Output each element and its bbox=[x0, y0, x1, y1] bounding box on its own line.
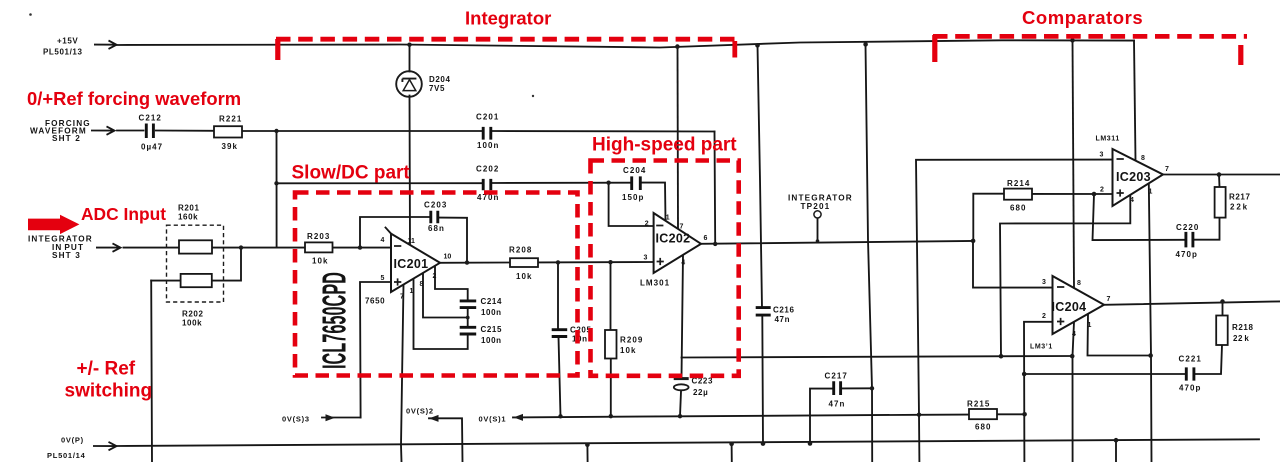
wire IC202 pin4 down to C223 bbox=[680, 255, 683, 416]
arrow 0V(S)1 pointing left bbox=[514, 414, 524, 421]
Comparators dashed box top bbox=[933, 34, 1247, 39]
svg-text:C221: C221 bbox=[1179, 355, 1202, 364]
svg-text:3: 3 bbox=[1100, 152, 1104, 159]
node C202 branch bbox=[274, 181, 278, 185]
node 0VP x763 bbox=[761, 441, 766, 446]
wire IC203 pin8 supply bbox=[1134, 41, 1136, 161]
svg-text:8: 8 bbox=[420, 281, 424, 288]
svg-text:4: 4 bbox=[681, 259, 685, 266]
resistor R203 bbox=[305, 242, 333, 252]
svg-text:2: 2 bbox=[1042, 313, 1046, 320]
svg-text:+/- Ref: +/- Ref bbox=[77, 359, 136, 380]
High-speed part dashed box bbox=[591, 161, 739, 376]
wire IC201 pin2 to C214 top bbox=[435, 266, 468, 301]
svg-text:10k: 10k bbox=[620, 346, 637, 355]
node 0VP x587 bbox=[585, 443, 590, 448]
wire IC204 output bbox=[1104, 301, 1280, 304]
wire 0V(S)2 stub bbox=[429, 418, 463, 462]
svg-text:0V(S)3: 0V(S)3 bbox=[282, 415, 310, 424]
node rail/IC204 pin8 bbox=[1070, 38, 1075, 43]
svg-text:1: 1 bbox=[410, 288, 414, 295]
svg-text:ADC Input: ADC Input bbox=[81, 204, 166, 224]
node R217/output bbox=[1217, 172, 1222, 177]
svg-text:IC201: IC201 bbox=[394, 257, 429, 271]
svg-text:1: 1 bbox=[666, 215, 670, 222]
svg-text:680: 680 bbox=[1010, 204, 1027, 213]
capacitor C212 bbox=[146, 124, 153, 139]
svg-text:8: 8 bbox=[1077, 280, 1081, 287]
wire 0V(S)3 stub bbox=[322, 417, 361, 419]
wire stub below 0V(P) x731 bbox=[731, 444, 733, 462]
svg-text:47n: 47n bbox=[829, 400, 846, 409]
node R209 top bbox=[608, 260, 612, 264]
wire IC203 pin2 to C220 bbox=[1093, 194, 1220, 240]
svg-text:4: 4 bbox=[1130, 197, 1134, 204]
RED OVERLAYS bbox=[276, 35, 1247, 376]
svg-text:47n: 47n bbox=[775, 315, 791, 324]
svg-text:5: 5 bbox=[381, 275, 385, 282]
svg-text:2: 2 bbox=[433, 273, 437, 280]
svg-text:High-speed part: High-speed part bbox=[592, 135, 737, 156]
svg-text:R215: R215 bbox=[967, 400, 990, 409]
wire IC202 output to comparators bbox=[701, 241, 973, 244]
svg-text:C203: C203 bbox=[424, 200, 447, 209]
node rail/x868 bbox=[863, 42, 868, 47]
wire R218 top bbox=[1222, 302, 1224, 315]
resistor R221 bbox=[214, 126, 242, 137]
wire IC201 pin7 vertical bbox=[401, 285, 404, 462]
svg-text:0V(S)2: 0V(S)2 bbox=[406, 407, 434, 416]
wire IC202 pin7 supply bbox=[677, 47, 680, 229]
wire IC203 pin4 ground path bbox=[1000, 195, 1130, 356]
capacitor C215 bbox=[460, 327, 477, 334]
svg-text:6: 6 bbox=[704, 235, 708, 242]
svg-text:+15V: +15V bbox=[57, 37, 78, 46]
svg-text:C214: C214 bbox=[481, 297, 503, 306]
svg-text:3: 3 bbox=[644, 254, 648, 261]
Slow/DC part dashed box bbox=[295, 193, 578, 376]
svg-text:LM3’1: LM3’1 bbox=[1030, 344, 1053, 351]
svg-text:0/+Ref forcing waveform: 0/+Ref forcing waveform bbox=[27, 88, 241, 109]
capacitor C217 legs bbox=[810, 388, 872, 443]
svg-text:R203: R203 bbox=[307, 232, 330, 241]
diode D204 (zener) bbox=[396, 71, 422, 97]
wire IC204 pin4 vertical bbox=[1073, 322, 1075, 462]
node 0VP x810 bbox=[808, 441, 813, 446]
wire stub below 0V(P) x587 bbox=[586, 445, 588, 462]
resistor R209 bbox=[605, 330, 617, 359]
svg-text:PL501/14: PL501/14 bbox=[47, 451, 86, 460]
svg-text:100n: 100n bbox=[481, 308, 502, 317]
svg-text:C204: C204 bbox=[623, 166, 646, 175]
svg-text:7: 7 bbox=[1107, 296, 1111, 303]
wire supply drop through C216 bbox=[758, 46, 764, 444]
test point TP201 bbox=[814, 211, 821, 218]
wire analog ground line y356 bbox=[682, 356, 1073, 358]
node 0VS1/C205 bbox=[558, 414, 562, 418]
svg-text:100n: 100n bbox=[477, 141, 499, 150]
svg-text:10: 10 bbox=[444, 253, 452, 260]
svg-text:2: 2 bbox=[1100, 187, 1104, 194]
wire IC201 pin1 to C215 bottom bbox=[414, 279, 468, 349]
wire IC203 pin1 vertical bbox=[1149, 184, 1152, 462]
svg-text:7: 7 bbox=[400, 294, 404, 301]
node forcing/summing bbox=[274, 129, 278, 133]
wire long vertical x868 bbox=[866, 45, 873, 462]
capacitor C202 bbox=[483, 179, 491, 190]
Integrator dashed box top bbox=[276, 37, 737, 42]
node TP201 bbox=[816, 239, 820, 243]
wire C202 line to C204 and pin2 bbox=[277, 183, 666, 221]
wire D204 branch to IC201 pin11 bbox=[409, 45, 412, 245]
scan speck 1 bbox=[532, 95, 534, 97]
node rail/D204 bbox=[407, 43, 411, 47]
comparator IC203 bbox=[1113, 149, 1164, 206]
svg-text:8: 8 bbox=[1141, 155, 1145, 162]
capacitor C205 bbox=[552, 330, 568, 337]
node C201/IC202 output bbox=[713, 242, 717, 246]
svg-text:7: 7 bbox=[1165, 166, 1169, 173]
svg-text:10k: 10k bbox=[312, 257, 329, 266]
ARROWS bbox=[91, 41, 523, 451]
resistor R214 bbox=[1004, 189, 1032, 200]
svg-text:SHT 3: SHT 3 bbox=[52, 251, 81, 260]
node pin2 IC204/C221 bbox=[1022, 372, 1027, 377]
Integrator box right tick bbox=[732, 41, 737, 58]
node R201/R202 right bbox=[239, 245, 243, 249]
svg-text:IC202: IC202 bbox=[656, 232, 691, 246]
node pin1 IC204/x1151 bbox=[1148, 353, 1153, 358]
comparator IC204 bbox=[1053, 276, 1105, 334]
svg-text:C217: C217 bbox=[825, 372, 848, 381]
svg-text:22 k: 22 k bbox=[1233, 334, 1249, 343]
wire R202 branch bbox=[151, 248, 241, 281]
svg-text:TP201: TP201 bbox=[801, 202, 831, 211]
Comparators box left tick bbox=[932, 35, 937, 62]
capacitor C223 (polarized) bbox=[674, 379, 689, 391]
svg-text:C202: C202 bbox=[476, 165, 499, 174]
wire C201 feedback vertical to IC202 output bbox=[714, 132, 717, 244]
Comparators box right tick bbox=[1238, 45, 1243, 65]
capacitor C217 bbox=[834, 381, 841, 395]
svg-text:R218: R218 bbox=[1232, 323, 1254, 332]
svg-text:22µ: 22µ bbox=[693, 388, 708, 397]
wire stub below 0V(P) x1116 bbox=[1115, 440, 1117, 462]
arrow +15V bbox=[94, 41, 117, 49]
svg-text:2 2 k: 2 2 k bbox=[1230, 203, 1248, 212]
node rail/C216 bbox=[755, 43, 760, 48]
svg-text:R221: R221 bbox=[219, 115, 242, 124]
capacitor C201 bbox=[483, 127, 491, 140]
wire R209 vertical bbox=[610, 262, 612, 416]
capacitor C203 bbox=[431, 211, 438, 224]
wire IC204 pin3 input bbox=[973, 241, 1053, 288]
arrow 0V(S)3 pointing right bbox=[326, 414, 336, 421]
wire C205 vertical bbox=[558, 262, 561, 416]
wire integrator input line bbox=[124, 247, 392, 249]
node C205 top bbox=[556, 260, 560, 264]
wire R214 net bbox=[973, 194, 1112, 241]
svg-text:Slow/DC part: Slow/DC part bbox=[292, 163, 411, 184]
node R218/output bbox=[1220, 299, 1225, 304]
svg-text:7V5: 7V5 bbox=[429, 84, 445, 93]
wire IC201 pin4 tick bbox=[386, 228, 392, 234]
node R203/C203 bbox=[358, 245, 362, 249]
svg-text:IC203: IC203 bbox=[1116, 170, 1151, 184]
Integrator box left tick bbox=[275, 39, 280, 60]
arrow forcing waveform bbox=[91, 126, 115, 134]
wire summing node vertical bbox=[276, 131, 278, 247]
wire IC204 pin1 bbox=[1088, 314, 1151, 356]
op-amp IC202 bbox=[654, 213, 701, 273]
svg-text:C215: C215 bbox=[481, 325, 503, 334]
svg-text:1: 1 bbox=[1149, 188, 1153, 195]
wire IC204 pin8 supply bbox=[1073, 40, 1075, 288]
capacitor C221 bbox=[1186, 367, 1194, 380]
wire C203 left leg bbox=[360, 217, 429, 248]
svg-text:PL501/13: PL501/13 bbox=[43, 48, 83, 57]
wire IC202 pin2 drop bbox=[609, 183, 654, 226]
svg-text:0µ47: 0µ47 bbox=[141, 143, 163, 152]
resistor R218 bbox=[1216, 316, 1228, 346]
node 0VP x731 bbox=[729, 442, 734, 447]
svg-text:470p: 470p bbox=[1179, 384, 1201, 393]
wire IC201 pin8 to C214/C215 junction bbox=[423, 273, 468, 327]
label ICL7650CPD vertical bbox=[315, 272, 353, 369]
node C203/output bbox=[465, 260, 469, 264]
wire R217 top bbox=[1218, 175, 1221, 187]
wire +15V rail bbox=[117, 40, 1134, 47]
svg-text:Comparators: Comparators bbox=[1022, 7, 1143, 28]
svg-text:R208: R208 bbox=[509, 245, 532, 254]
op-amp IC201 bbox=[391, 234, 440, 292]
svg-text:1: 1 bbox=[1088, 322, 1092, 329]
wire 0V(P) line bbox=[117, 439, 1259, 446]
svg-text:100n: 100n bbox=[481, 336, 502, 345]
wire +/- ref switching vertical bbox=[150, 281, 153, 462]
svg-text:LM311: LM311 bbox=[1096, 136, 1120, 143]
wire IC201 plus input bbox=[360, 282, 391, 418]
scan speck 2 bbox=[29, 13, 32, 16]
node gnd y356/x1072 bbox=[1070, 354, 1075, 359]
black dashed box around R201/R202 bbox=[167, 225, 224, 302]
svg-text:R201: R201 bbox=[178, 204, 200, 213]
svg-text:IC204: IC204 bbox=[1052, 300, 1087, 314]
svg-text:R202: R202 bbox=[182, 310, 204, 319]
svg-text:39k: 39k bbox=[222, 142, 239, 151]
svg-text:7: 7 bbox=[680, 223, 684, 230]
svg-text:C201: C201 bbox=[476, 113, 499, 122]
node integrator/R214 bbox=[971, 239, 976, 244]
node IC202 pin2 bbox=[606, 181, 610, 185]
svg-text:160k: 160k bbox=[178, 213, 198, 222]
svg-text:R214: R214 bbox=[1007, 179, 1030, 188]
svg-text:LM301: LM301 bbox=[640, 278, 670, 287]
svg-text:0V(S)1: 0V(S)1 bbox=[479, 414, 507, 423]
node gnd y356/x1001 bbox=[999, 354, 1004, 359]
svg-text:C212: C212 bbox=[139, 114, 162, 123]
svg-text:680: 680 bbox=[975, 423, 992, 432]
svg-text:C216: C216 bbox=[773, 306, 795, 315]
svg-text:150p: 150p bbox=[622, 193, 644, 202]
resistor R217 bbox=[1215, 187, 1226, 218]
node 0VS1/R209 bbox=[609, 414, 613, 418]
arrow 0V(S)2 pointing left bbox=[429, 415, 439, 422]
svg-text:switching: switching bbox=[65, 381, 153, 402]
resistor R201 bbox=[179, 240, 212, 253]
COMPONENT BODIES bbox=[179, 126, 1228, 419]
wire TP201 stub bbox=[817, 218, 819, 241]
svg-text:3: 3 bbox=[1042, 279, 1046, 286]
svg-text:SHT 2: SHT 2 bbox=[52, 134, 81, 143]
node C217/x872 bbox=[870, 386, 874, 390]
svg-text:R209: R209 bbox=[620, 336, 643, 345]
node 0VS1/R215 right bbox=[1022, 412, 1027, 417]
resistor R215 bbox=[969, 409, 997, 419]
wire C203 right leg bbox=[439, 218, 467, 263]
capacitor C214 bbox=[460, 301, 477, 308]
wire IC201 output line through R208 bbox=[440, 261, 654, 264]
arrow 0V(P) bbox=[93, 442, 117, 450]
resistor R208 bbox=[510, 258, 538, 267]
svg-text:470p: 470p bbox=[1176, 250, 1198, 259]
resistor R202 bbox=[181, 274, 212, 287]
svg-text:R217: R217 bbox=[1229, 193, 1251, 202]
svg-text:4: 4 bbox=[1072, 331, 1076, 338]
capacitor C216 bbox=[756, 308, 771, 316]
node C214/C215 pin8 bbox=[466, 316, 470, 320]
svg-text:100k: 100k bbox=[182, 319, 202, 328]
svg-text:0V(P): 0V(P) bbox=[61, 436, 84, 445]
svg-text:D204: D204 bbox=[429, 75, 451, 84]
svg-text:11: 11 bbox=[408, 238, 416, 245]
svg-text:7650: 7650 bbox=[365, 297, 385, 306]
capacitor C220 bbox=[1186, 232, 1193, 248]
svg-text:68n: 68n bbox=[428, 224, 445, 233]
node rail/pin7 IC202 bbox=[675, 44, 680, 49]
node 0VS1/C223 bbox=[678, 414, 682, 418]
red ADC input arrow bbox=[28, 215, 79, 234]
wire IC204 pin2 net bbox=[1024, 322, 1053, 462]
svg-text:10k: 10k bbox=[516, 272, 533, 281]
svg-text:2: 2 bbox=[645, 220, 649, 227]
wire IC203 pin3 reference bbox=[916, 160, 1113, 462]
wire C221 line y374 bbox=[1024, 345, 1222, 374]
wire IC203 output bbox=[1163, 174, 1280, 176]
svg-text:ICL7650CPD: ICL7650CPD bbox=[315, 272, 353, 369]
node 0VP x1116 bbox=[1114, 438, 1119, 443]
svg-text:C220: C220 bbox=[1176, 223, 1199, 232]
wire forcing waveform input segment bbox=[117, 131, 715, 132]
node 0VS1/pin3 ref bbox=[917, 413, 921, 417]
svg-text:4: 4 bbox=[381, 237, 385, 244]
svg-text:Integrator: Integrator bbox=[465, 8, 551, 29]
arrow integrator input bbox=[96, 243, 121, 251]
node R214/IC203 pin2 bbox=[1092, 192, 1097, 197]
wire 0V(S)1 line with R215 bbox=[513, 414, 1025, 417]
capacitor C204 bbox=[632, 176, 641, 190]
